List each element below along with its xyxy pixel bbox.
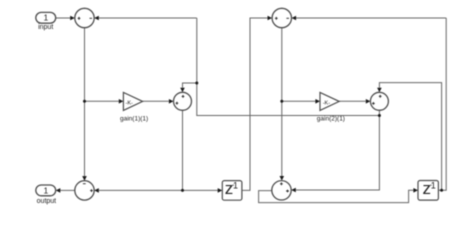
svg-text:1: 1 (44, 13, 49, 23)
svg-text:gain(2)(1): gain(2)(1) (317, 116, 345, 123)
svg-text:output: output (37, 198, 57, 205)
svg-text:1: 1 (233, 181, 238, 191)
svg-text:1: 1 (431, 181, 436, 191)
svg-text:input: input (38, 24, 53, 31)
svg-text:1: 1 (44, 185, 49, 195)
svg-text:-K-: -K- (126, 100, 134, 106)
svg-text:z: z (225, 179, 234, 198)
svg-text:-K-: -K- (323, 100, 331, 106)
svg-text:gain(1)(1): gain(1)(1) (120, 116, 148, 123)
svg-text:z: z (423, 179, 432, 198)
